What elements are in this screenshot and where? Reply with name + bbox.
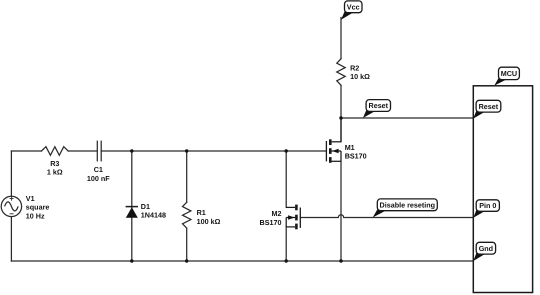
wire R1 branch vertical top [186,151,188,202]
label R2 [350,63,370,81]
resistor R1 [183,202,191,228]
wire bottom rail [11,260,473,262]
svg-text:square: square [26,203,50,212]
flag Reset (MCU pin) [473,100,501,118]
svg-text:100 nF: 100 nF [87,174,110,183]
transistor M2 [286,205,300,230]
svg-text:R3: R3 [50,159,59,168]
wire left vertical bottom (V1 to bottom rail) [10,217,12,261]
svg-text:1 kΩ: 1 kΩ [47,168,63,177]
transistor M1 [326,118,341,163]
flag Vcc [341,1,362,20]
svg-text:R2: R2 [350,63,359,72]
wire Disable-reseting horizontal with hop [300,215,473,218]
svg-text:M2: M2 [272,209,282,218]
wire M2 drain vertical [285,151,287,207]
svg-text:M1: M1 [345,143,355,152]
wire R1 branch vertical bottom [186,228,188,261]
voltage source V1 [1,196,21,216]
svg-text:10 kΩ: 10 kΩ [350,72,370,81]
svg-text:C1: C1 [94,165,103,174]
svg-text:BS170: BS170 [345,152,367,161]
svg-text:Disable reseting: Disable reseting [380,200,436,209]
wire M1 source to bottom rail [340,161,342,261]
diode D1 [126,207,138,218]
svg-text:BS170: BS170 [260,218,282,227]
label C1 [87,165,110,183]
svg-text:Gnd: Gnd [479,244,493,253]
wire D1 branch vertical [131,151,133,261]
svg-text:Pin 0: Pin 0 [479,201,496,210]
svg-text:Vcc: Vcc [347,2,360,11]
svg-text:Reset: Reset [479,102,499,111]
wire Vcc to R2 [340,18,342,59]
svg-text:100 kΩ: 100 kΩ [197,217,221,226]
svg-text:MCU: MCU [501,69,517,78]
wire left vertical top (V1 to top rail) [10,151,12,196]
wire top rail segment V1 to R3 [11,150,41,152]
resistor R2 [337,59,345,85]
MCU box [473,86,532,293]
junction dots [130,116,343,262]
label M2 [260,209,282,227]
flag Disable reseting [373,199,438,218]
svg-text:D1: D1 [141,202,150,211]
svg-text:V1: V1 [26,194,35,203]
label D1 [141,202,166,220]
svg-text:10 Hz: 10 Hz [26,211,45,220]
svg-text:Reset: Reset [369,101,389,110]
wire Reset horizontal [341,117,473,119]
label V1 [26,194,50,220]
capacitor C1 [96,141,98,161]
wire R2 to reset node [340,85,342,142]
flag MCU [494,67,519,85]
label R3 [47,159,63,177]
svg-text:R1: R1 [197,208,206,217]
flag Reset (net) [363,100,391,118]
label M1 [345,143,367,161]
wire M2 source to bottom rail [285,227,287,261]
label R1 [197,208,221,226]
svg-text:1N4148: 1N4148 [141,211,166,220]
resistor R3 [42,147,69,156]
flag Gnd [473,242,495,261]
wire top rail C1 to M1 gate [101,150,326,152]
wire R3 to C1 [68,150,97,152]
flag Pin 0 [473,200,499,218]
